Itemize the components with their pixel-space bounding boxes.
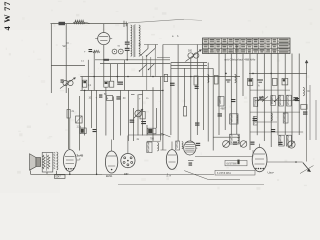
svg-text:6247: 6247 xyxy=(56,177,62,179)
svg-text:4687: 4687 xyxy=(221,108,227,111)
svg-text:6 V37/6 W61: 6 V37/6 W61 xyxy=(217,172,231,175)
svg-text:EM11: EM11 xyxy=(106,175,113,178)
svg-text:2x45: 2x45 xyxy=(77,154,84,158)
svg-text:4 W 77: 4 W 77 xyxy=(3,1,12,31)
svg-text:mit Gleichlauf 468 kHz: mit Gleichlauf 468 kHz xyxy=(225,58,256,62)
svg-text:780: 780 xyxy=(150,138,155,141)
svg-text:6V37/6W: 6V37/6W xyxy=(227,162,238,165)
svg-text:500: 500 xyxy=(188,50,193,53)
svg-text:µF: µF xyxy=(78,159,81,162)
svg-text:w: w xyxy=(169,175,171,178)
svg-text:Dr: Dr xyxy=(308,90,311,93)
